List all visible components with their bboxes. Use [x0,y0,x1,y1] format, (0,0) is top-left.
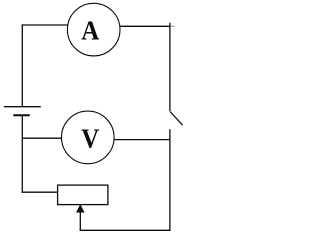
wire: faint overshoot right of corner [171,25,175,27]
wire: voltmeter left lead to left vertical [22,137,62,139]
wire: voltmeter right lead to right vertical [114,139,171,141]
wire: right vertical upper (with tick above corner) down to switch [169,23,171,112]
wire: top horizontal from ammeter to right corner [120,25,171,27]
wire: battery bottom lead (left vertical lower) [21,115,23,193]
wire: battery top lead (left vertical upper) [21,24,23,106]
switch blade (open) [170,112,182,126]
voltmeter circle [62,111,115,164]
wire: top horizontal from left corner to ammeter [22,24,68,26]
rheostat body R1 [58,185,108,205]
wire: bottom-left horizontal to rheostat [22,191,58,193]
rheostat slider arrow [76,205,84,213]
wire: slider stem [79,212,81,231]
wire: right vertical lower from switch to bottom [169,129,171,231]
battery long plate (positive terminal) [4,106,41,108]
battery short plate (negative terminal) [13,114,29,116]
svg-text:V: V [81,123,99,153]
svg-text:A: A [81,16,99,46]
ammeter circle [67,3,120,56]
wire: bottom horizontal [80,229,171,231]
